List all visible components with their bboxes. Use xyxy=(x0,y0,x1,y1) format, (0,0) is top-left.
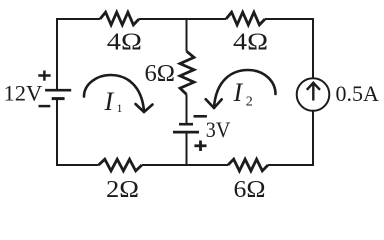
svg-text:I: I xyxy=(233,78,244,107)
svg-text:4Ω: 4Ω xyxy=(233,29,268,56)
svg-text:12V: 12V xyxy=(4,81,43,106)
svg-text:6Ω: 6Ω xyxy=(234,176,266,203)
svg-text:I: I xyxy=(104,87,115,116)
svg-text:2Ω: 2Ω xyxy=(106,176,139,203)
svg-text:0.5A: 0.5A xyxy=(336,81,380,106)
svg-text:3V: 3V xyxy=(206,117,231,142)
svg-text:6Ω: 6Ω xyxy=(145,60,175,87)
svg-text:2: 2 xyxy=(246,95,253,110)
svg-text:4Ω: 4Ω xyxy=(107,29,142,56)
svg-text:1: 1 xyxy=(117,101,123,115)
